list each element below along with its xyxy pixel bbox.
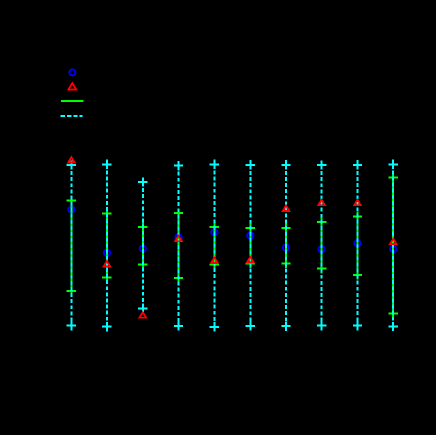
group 8 green interval bar bbox=[317, 217, 326, 273]
group 9 cyan dashed whisker bbox=[353, 160, 362, 330]
group 4 blue circle marker bbox=[175, 234, 181, 240]
group 9 green interval bar bbox=[353, 212, 362, 280]
legend marker: red triangle (series 2) bbox=[69, 83, 77, 89]
group 8 red triangle marker bbox=[318, 200, 325, 205]
group 3 blue circle marker bbox=[140, 246, 146, 252]
group 5 blue circle marker bbox=[211, 229, 217, 235]
group 7 green interval bar bbox=[281, 224, 290, 269]
group 6 red triangle marker bbox=[247, 257, 254, 262]
group 5 red triangle marker bbox=[211, 258, 218, 263]
group 9 red triangle marker bbox=[354, 200, 361, 205]
group 4 cyan dashed whisker bbox=[174, 161, 183, 331]
legend sample: cyan dashed line (series 4) bbox=[61, 115, 83, 117]
group 6 green interval bar bbox=[246, 223, 255, 268]
group 4 green interval bar bbox=[174, 208, 183, 282]
group 5 cyan dashed whisker bbox=[210, 160, 219, 332]
group 1 red triangle marker bbox=[68, 157, 75, 162]
group 2 green interval bar bbox=[102, 209, 111, 282]
group 10 red triangle marker bbox=[390, 239, 397, 244]
group 3 green interval bar bbox=[138, 222, 147, 269]
group 1 green interval bar bbox=[67, 196, 76, 296]
group 7 blue circle marker bbox=[283, 244, 289, 250]
group 10 cyan dashed whisker bbox=[389, 160, 398, 332]
group 9 blue circle marker bbox=[354, 240, 360, 246]
group 7 cyan dashed whisker bbox=[281, 160, 290, 331]
group 6 cyan dashed whisker bbox=[246, 160, 255, 330]
legend sample: green solid line (series 3) bbox=[61, 100, 83, 102]
group 2 red triangle marker bbox=[104, 261, 111, 266]
group 7 red triangle marker bbox=[283, 206, 290, 211]
group 8 blue circle marker bbox=[319, 246, 325, 252]
group 5 green interval bar bbox=[210, 222, 219, 269]
group 1 blue circle marker bbox=[68, 206, 74, 212]
group 3 red triangle marker bbox=[140, 312, 147, 317]
group 3 cyan dashed whisker bbox=[138, 177, 147, 313]
group 2 blue circle marker bbox=[104, 250, 110, 256]
group 1 cyan dashed whisker bbox=[67, 160, 76, 330]
group 10 blue circle marker bbox=[390, 246, 396, 252]
group 6 blue circle marker bbox=[247, 233, 253, 239]
legend marker: blue circle (series 1) bbox=[69, 69, 75, 75]
group 4 red triangle marker bbox=[175, 236, 182, 241]
group 8 cyan dashed whisker bbox=[317, 160, 326, 330]
group 2 cyan dashed whisker bbox=[102, 160, 111, 332]
group 10 green interval bar bbox=[389, 173, 398, 319]
